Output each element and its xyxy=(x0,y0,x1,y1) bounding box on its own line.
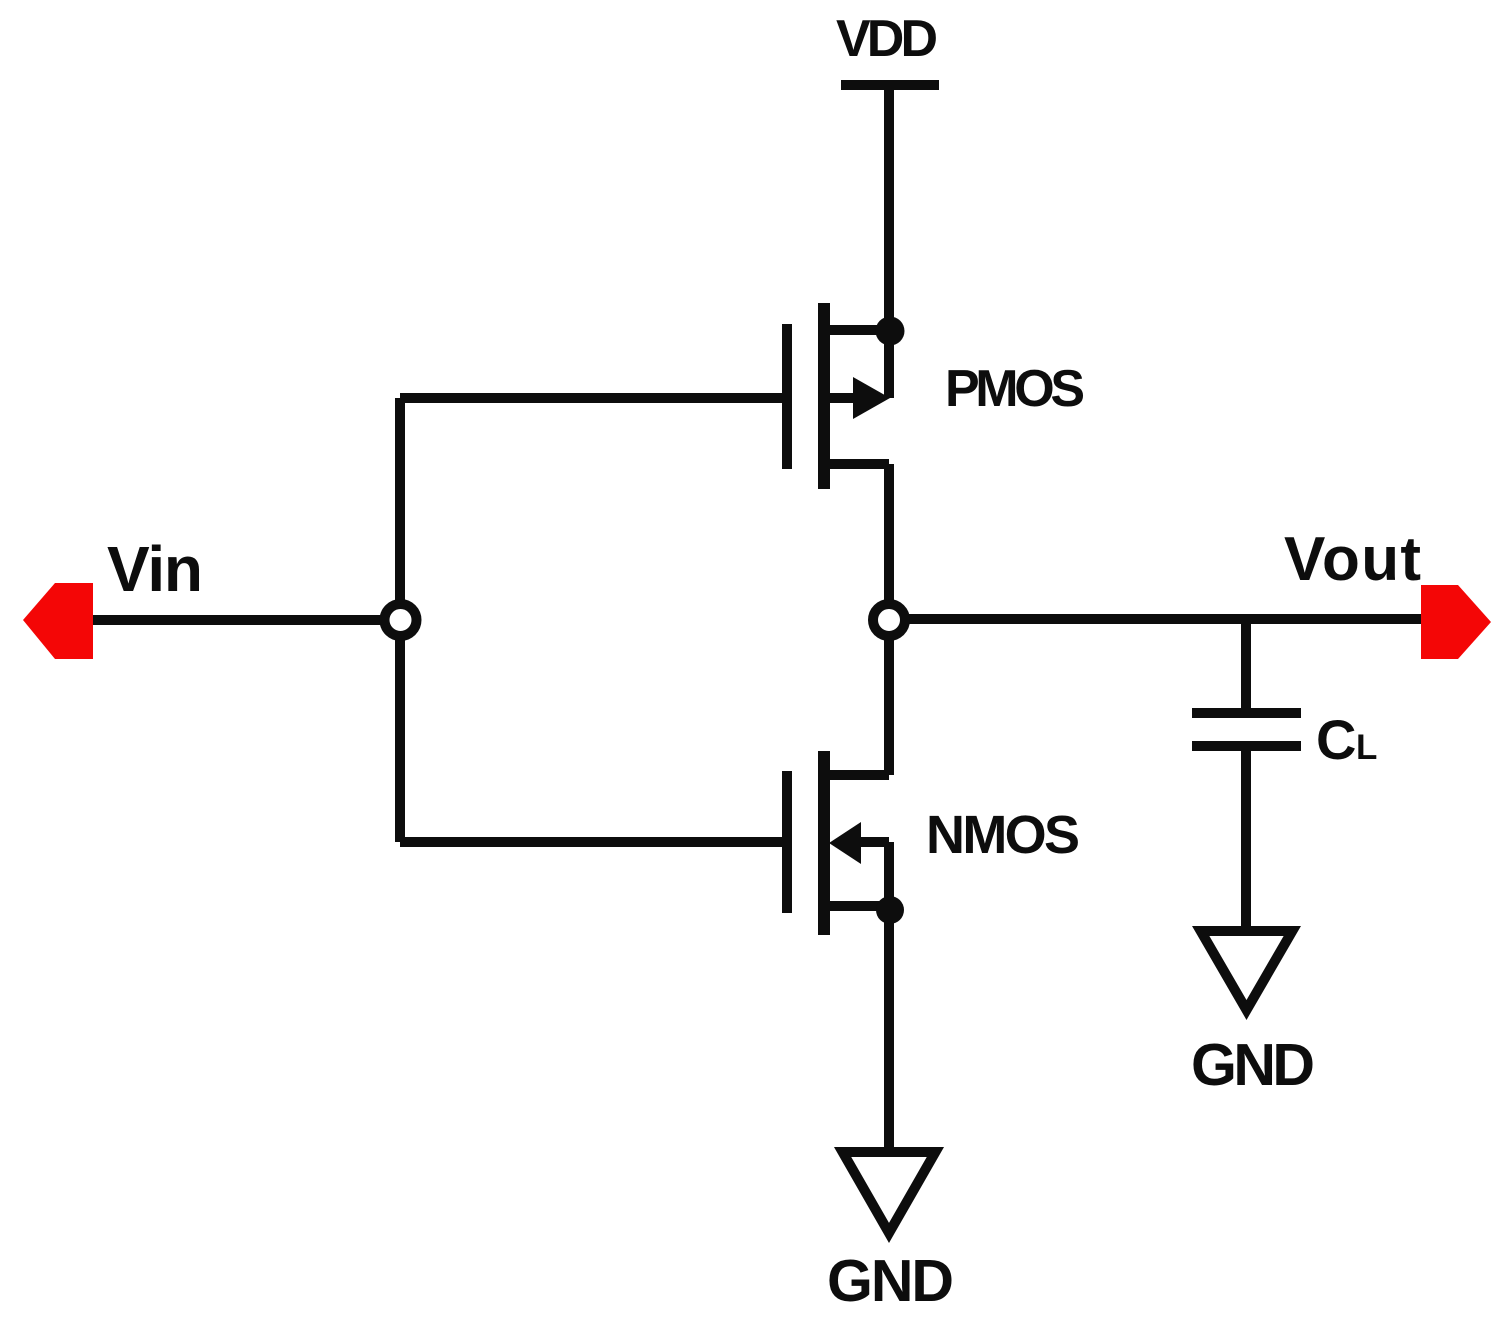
svg-text:NMOS: NMOS xyxy=(926,805,1080,865)
svg-text:Vin: Vin xyxy=(107,533,203,605)
svg-text:GND: GND xyxy=(1191,1032,1315,1098)
svg-text:Vout: Vout xyxy=(1284,525,1421,594)
svg-text:C: C xyxy=(1316,708,1356,771)
svg-text:PMOS: PMOS xyxy=(945,360,1085,418)
svg-text:VDD: VDD xyxy=(836,10,938,68)
svg-text:GND: GND xyxy=(827,1248,954,1314)
svg-text:L: L xyxy=(1356,728,1377,767)
